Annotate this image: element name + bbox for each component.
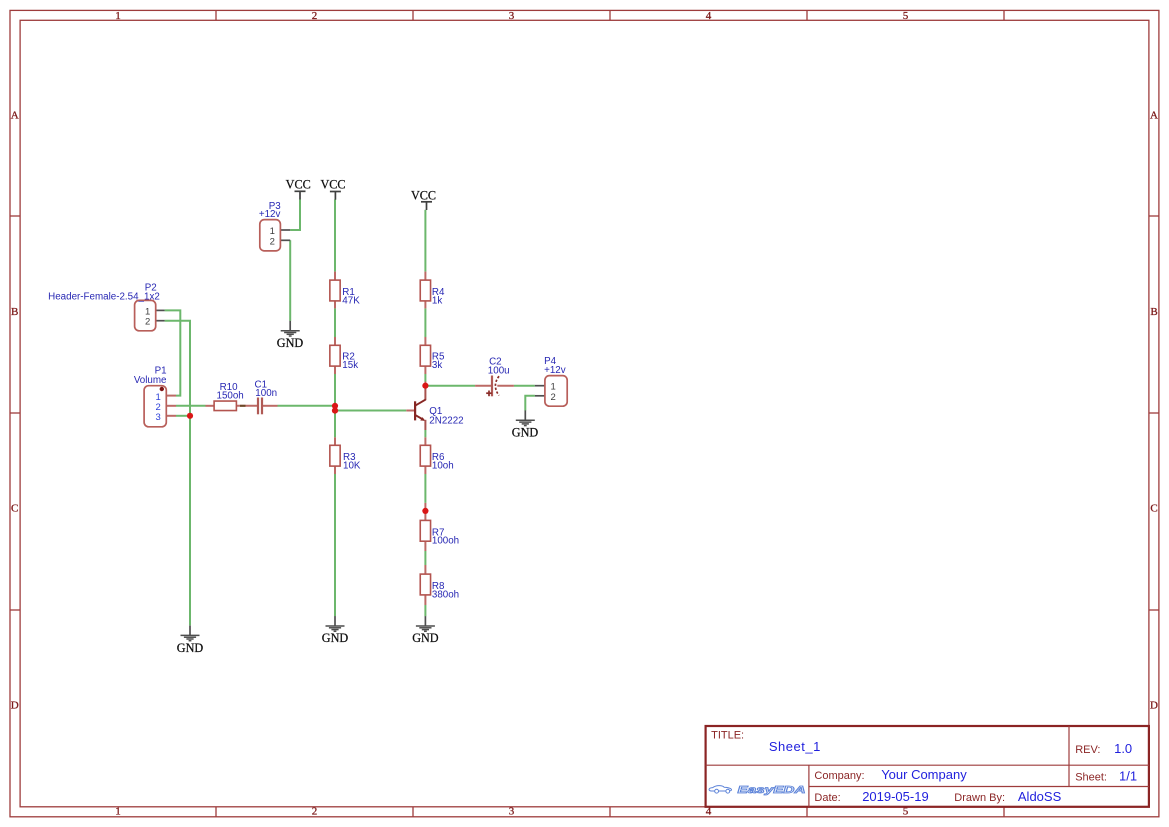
svg-text:REV:: REV: xyxy=(1075,744,1100,756)
svg-text:Your Company: Your Company xyxy=(881,767,967,782)
svg-text:Sheet_1: Sheet_1 xyxy=(769,739,821,754)
svg-text:2: 2 xyxy=(551,392,556,403)
svg-text:3k: 3k xyxy=(432,360,442,371)
svg-text:D: D xyxy=(11,700,19,712)
svg-text:15k: 15k xyxy=(342,360,358,371)
svg-text:Date:: Date: xyxy=(814,792,840,804)
svg-text:GND: GND xyxy=(322,631,349,645)
svg-text:100u: 100u xyxy=(488,366,510,377)
svg-text:2: 2 xyxy=(145,317,150,328)
svg-text:2: 2 xyxy=(312,806,318,818)
svg-text:GND: GND xyxy=(512,425,539,439)
svg-text:Drawn By:: Drawn By: xyxy=(954,792,1005,804)
svg-text:GND: GND xyxy=(412,631,439,645)
svg-text:A: A xyxy=(11,110,19,122)
svg-text:B: B xyxy=(1150,306,1157,318)
svg-text:47K: 47K xyxy=(342,296,360,307)
svg-text:TITLE:: TITLE: xyxy=(711,730,744,742)
svg-text:10oh: 10oh xyxy=(432,461,454,472)
svg-text:C: C xyxy=(11,503,18,515)
svg-text:150oh: 150oh xyxy=(217,390,244,401)
svg-text:2019-05-19: 2019-05-19 xyxy=(862,789,929,804)
svg-text:10K: 10K xyxy=(343,461,361,472)
svg-text:Volume: Volume xyxy=(134,375,167,386)
svg-text:C: C xyxy=(1150,503,1157,515)
svg-text:3: 3 xyxy=(509,10,515,22)
svg-text:1k: 1k xyxy=(432,296,442,307)
svg-text:2: 2 xyxy=(312,10,318,22)
svg-text:VCC: VCC xyxy=(320,177,345,191)
svg-text:3: 3 xyxy=(156,412,161,423)
svg-text:1: 1 xyxy=(115,10,121,22)
svg-text:+12v: +12v xyxy=(544,365,566,376)
svg-text:1/1: 1/1 xyxy=(1119,768,1137,783)
svg-text:AldoSS: AldoSS xyxy=(1018,789,1062,804)
svg-text:380oh: 380oh xyxy=(432,589,459,600)
svg-text:A: A xyxy=(1150,110,1158,122)
svg-text:GND: GND xyxy=(277,336,304,350)
svg-text:B: B xyxy=(11,306,18,318)
svg-text:+12v: +12v xyxy=(259,209,281,220)
svg-text:100oh: 100oh xyxy=(432,536,459,547)
svg-text:1.0: 1.0 xyxy=(1114,741,1132,756)
svg-text:4: 4 xyxy=(706,10,712,22)
svg-text:VCC: VCC xyxy=(411,188,436,202)
svg-text:Company:: Company: xyxy=(814,770,864,782)
svg-text:2N2222: 2N2222 xyxy=(429,415,463,426)
svg-text:5: 5 xyxy=(903,10,909,22)
svg-text:2: 2 xyxy=(270,236,275,247)
svg-text:1: 1 xyxy=(115,806,121,818)
svg-text:VCC: VCC xyxy=(286,177,311,191)
svg-text:Sheet:: Sheet: xyxy=(1075,771,1107,783)
svg-text:Header-Female-2.54_1x2: Header-Female-2.54_1x2 xyxy=(48,291,160,302)
svg-text:D: D xyxy=(1150,700,1158,712)
svg-text:GND: GND xyxy=(177,641,204,655)
svg-text:3: 3 xyxy=(509,806,515,818)
svg-text:EasyEDA: EasyEDA xyxy=(738,784,806,796)
